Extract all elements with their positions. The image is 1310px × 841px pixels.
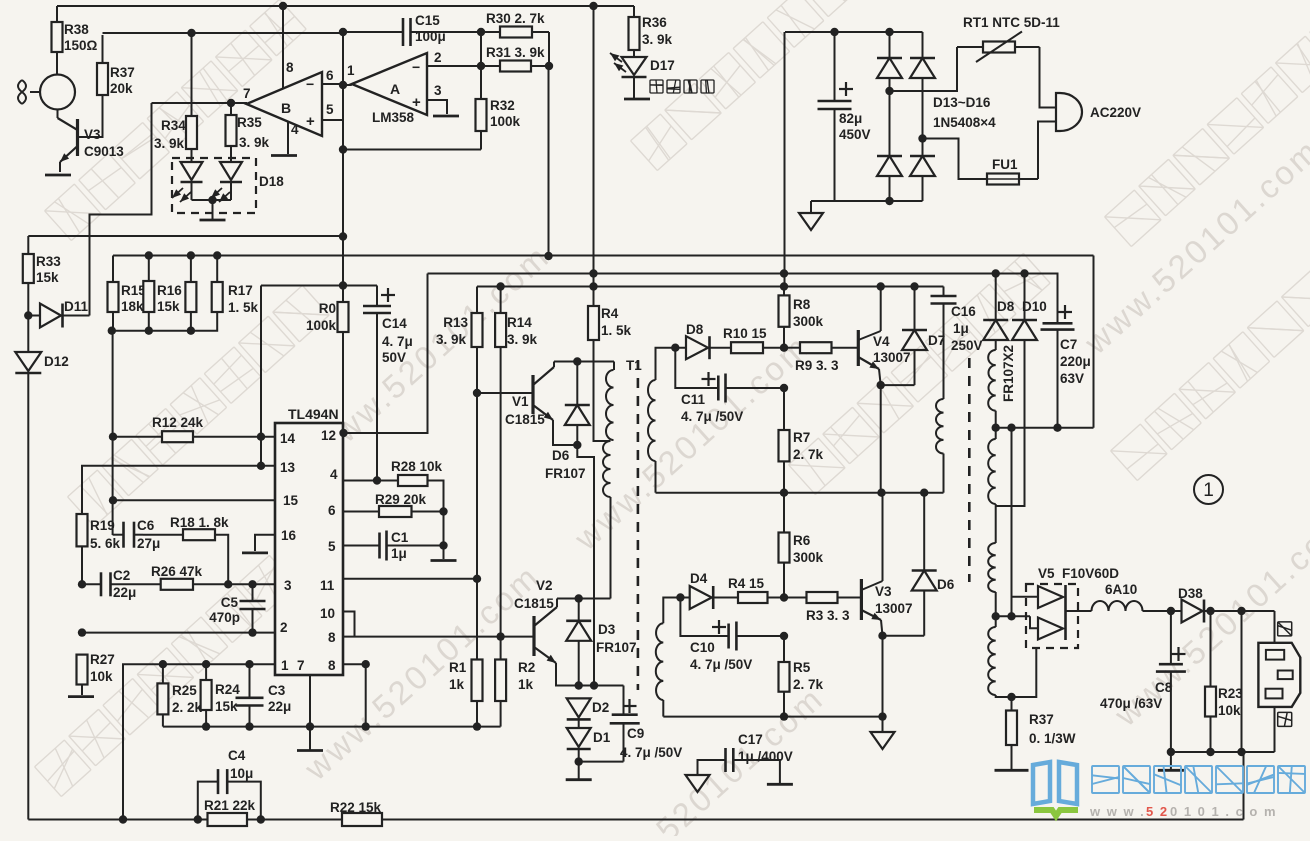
- diode D18a: [172, 162, 203, 202]
- svg-text:w w w .: w w w .: [1089, 804, 1145, 819]
- capacitor C6: [113, 522, 143, 548]
- diode D16: [910, 156, 935, 201]
- node: [496, 632, 504, 640]
- node: [339, 145, 347, 153]
- svg-text:450V: 450V: [839, 127, 871, 142]
- resistor R25: [157, 664, 168, 726]
- inductor 6A10: [1092, 601, 1143, 611]
- node: [159, 660, 167, 668]
- svg-text:D3: D3: [598, 622, 616, 637]
- node: [213, 251, 221, 259]
- svg-text:3: 3: [434, 83, 442, 98]
- svg-text:C16: C16: [951, 304, 976, 319]
- node: [544, 252, 552, 260]
- resistor R16b: [185, 256, 196, 331]
- decor watermark: [631, 0, 893, 171]
- node: [145, 327, 153, 335]
- svg-text:3. 9k: 3. 9k: [239, 135, 270, 150]
- svg-text:V4: V4: [873, 334, 890, 349]
- diode D8out: [983, 274, 1008, 351]
- wire rail B: [428, 273, 1057, 275]
- svg-text:5. 6k: 5. 6k: [90, 536, 121, 551]
- wire: [922, 139, 924, 157]
- resistor R10: [731, 342, 784, 353]
- node: [575, 681, 583, 689]
- resistor R5: [779, 636, 790, 717]
- resistor R30: [481, 27, 549, 38]
- ground: [271, 154, 297, 157]
- node: [24, 311, 32, 319]
- svg-text:15: 15: [283, 493, 299, 508]
- resistor R13: [472, 313, 483, 393]
- pin 8b wire: [343, 664, 366, 726]
- svg-text:16: 16: [281, 528, 297, 543]
- svg-text:R34: R34: [161, 118, 186, 133]
- svg-text:R7: R7: [793, 430, 810, 445]
- wire R bank bottom: [112, 312, 191, 331]
- decor watermark: [1107, 503, 1310, 734]
- capacitor C7: [1041, 274, 1075, 428]
- ground: [767, 783, 793, 786]
- wire 427 row: [996, 427, 1094, 429]
- svg-text:15k: 15k: [36, 270, 59, 285]
- resistor R22: [342, 813, 382, 826]
- node: [575, 594, 583, 602]
- resistor R19: [77, 514, 88, 584]
- wire: [342, 237, 344, 286]
- resistor R15: [108, 256, 119, 313]
- svg-text:R1: R1: [449, 660, 467, 675]
- resistor R16: [143, 256, 154, 313]
- node: [589, 269, 597, 277]
- pin 11 wire: [343, 578, 477, 580]
- svg-text:R29 20k: R29 20k: [375, 492, 427, 507]
- ground: [68, 695, 94, 698]
- node: [575, 757, 583, 765]
- svg-text:1: 1: [281, 658, 289, 673]
- svg-text:470p: 470p: [209, 610, 240, 625]
- wire feedback: [90, 103, 152, 316]
- svg-text:3: 3: [284, 578, 292, 593]
- node: [1007, 693, 1015, 701]
- pin 4 wire: [343, 480, 398, 482]
- svg-text:C17: C17: [738, 732, 763, 747]
- svg-text:4: 4: [330, 467, 338, 482]
- resistor R4: [588, 287, 610, 442]
- wire V5 out: [1066, 610, 1092, 612]
- node: [339, 28, 347, 36]
- decor watermark: [68, 285, 330, 526]
- svg-text:AC220V: AC220V: [1090, 105, 1141, 120]
- xfmr T1 primary upper: [606, 362, 614, 441]
- capacitor C8: [1156, 611, 1186, 752]
- resistor R33: [23, 236, 34, 316]
- svg-text:C1: C1: [391, 530, 409, 545]
- svg-text:D18: D18: [259, 174, 284, 189]
- svg-text:13007: 13007: [875, 601, 913, 616]
- node: [992, 424, 1000, 432]
- pin 2 wire: [427, 65, 481, 67]
- svg-text:8: 8: [328, 658, 336, 673]
- svg-text:1. 5k: 1. 5k: [228, 300, 259, 315]
- label plus: [1058, 311, 1072, 313]
- connector slot: [1278, 671, 1293, 680]
- resistor R26: [161, 579, 193, 590]
- label plus: [381, 294, 395, 296]
- svg-text:R22 15k: R22 15k: [330, 800, 382, 815]
- ground: [566, 762, 592, 780]
- svg-text:R0: R0: [319, 301, 336, 316]
- IC ground stub: [309, 675, 311, 727]
- label dianyuan zhishi: [650, 80, 663, 93]
- wire: [342, 32, 344, 237]
- wire: [577, 445, 594, 686]
- wire R37 top: [103, 32, 344, 34]
- node: [245, 722, 253, 730]
- svg-text:R32: R32: [490, 98, 515, 113]
- node: [573, 357, 581, 365]
- xfmr T1 sec 1: [648, 348, 686, 493]
- svg-text:1. 5k: 1. 5k: [601, 323, 632, 338]
- svg-text:+: +: [306, 113, 315, 130]
- ground: [242, 552, 268, 555]
- svg-text:R35: R35: [237, 115, 262, 130]
- wire: [476, 393, 478, 660]
- svg-text:R13: R13: [443, 315, 468, 330]
- node: [339, 81, 347, 89]
- wire: [57, 110, 59, 119]
- capacitor C14: [363, 286, 391, 481]
- node: [780, 632, 788, 640]
- svg-text:8: 8: [286, 60, 294, 75]
- capacitor C1: [380, 531, 444, 561]
- resistor R32: [476, 32, 487, 150]
- node: [992, 269, 1000, 277]
- node: [920, 489, 928, 497]
- wire: [1040, 47, 1057, 108]
- node: [589, 2, 597, 10]
- svg-text:R10 15: R10 15: [723, 326, 767, 341]
- node: [208, 196, 216, 204]
- node: [877, 381, 885, 389]
- svg-text:C9: C9: [627, 726, 644, 741]
- diode D10: [996, 274, 1037, 507]
- node: [477, 62, 485, 70]
- wire V1 base: [477, 392, 533, 394]
- svg-text:1: 1: [347, 63, 355, 78]
- node: [187, 29, 195, 37]
- thermistor RT1: [957, 32, 1040, 63]
- svg-text:C7: C7: [1060, 337, 1077, 352]
- resistor R37: [97, 35, 108, 95]
- node: [1007, 424, 1015, 432]
- label lan blue: [1278, 622, 1292, 636]
- node: [671, 344, 679, 352]
- node: [590, 681, 598, 689]
- node: [362, 660, 370, 668]
- svg-text:7: 7: [297, 658, 305, 673]
- wire: [191, 33, 193, 116]
- decor watermark: [581, 679, 831, 841]
- wire AC in lower: [923, 139, 988, 180]
- svg-text:13007: 13007: [873, 350, 911, 365]
- pin 15 wire: [113, 499, 275, 501]
- box D18: [172, 158, 256, 213]
- wire: [260, 437, 262, 466]
- pin 5 wire: [322, 120, 343, 150]
- node: [877, 282, 885, 290]
- IC U2 TL494N: [275, 423, 343, 675]
- decor watermark: [1077, 131, 1310, 362]
- pin 12 wire: [343, 274, 428, 434]
- svg-text:6: 6: [328, 503, 336, 518]
- svg-text:2: 2: [434, 50, 442, 65]
- svg-text:R38: R38: [64, 22, 89, 37]
- svg-text:FU1: FU1: [992, 157, 1018, 172]
- svg-text:T1: T1: [626, 358, 642, 373]
- wire bridge supply drop: [784, 32, 786, 287]
- diode D14: [910, 32, 935, 139]
- label zong brown: [1278, 712, 1292, 726]
- svg-text:FR107: FR107: [596, 640, 637, 655]
- ground: [431, 559, 457, 562]
- svg-text:R37: R37: [1029, 712, 1054, 727]
- svg-text:5: 5: [326, 102, 334, 117]
- svg-text:V3: V3: [84, 127, 101, 142]
- svg-text:22μ: 22μ: [113, 585, 136, 600]
- svg-text:R5: R5: [793, 660, 811, 675]
- svg-text:470μ /63V: 470μ /63V: [1100, 696, 1162, 711]
- wire R37 base link: [78, 95, 103, 137]
- wire: [1143, 610, 1182, 612]
- svg-text:15k: 15k: [215, 699, 238, 714]
- svg-text:1k: 1k: [518, 677, 534, 692]
- node: [780, 269, 788, 277]
- resistor R12: [162, 431, 193, 442]
- ground: [1158, 752, 1184, 770]
- svg-text:6A10: 6A10: [1105, 582, 1137, 597]
- wire AC in upper: [890, 47, 958, 91]
- node 7 wire: [152, 102, 248, 104]
- logo url www.520101.com: [1089, 804, 1277, 819]
- node: [473, 389, 481, 397]
- wire: [1038, 122, 1056, 180]
- svg-text:7: 7: [243, 86, 251, 101]
- wire: [212, 200, 214, 219]
- svg-text:R12 24k: R12 24k: [152, 415, 204, 430]
- decor watermark: [1111, 239, 1310, 480]
- diode D15: [877, 156, 902, 201]
- svg-text:10: 10: [320, 606, 335, 621]
- svg-text:250V: 250V: [951, 338, 983, 353]
- node: [1167, 607, 1175, 615]
- node: [248, 580, 256, 588]
- op-amp U1B: [247, 72, 323, 136]
- pin 1 wire: [123, 664, 275, 819]
- node: [992, 612, 1000, 620]
- node: [885, 197, 893, 205]
- fuse FU1: [983, 174, 1038, 185]
- ground: [624, 98, 650, 101]
- resistor R14: [495, 287, 506, 660]
- svg-text:100k: 100k: [490, 114, 521, 129]
- decor watermark: [1105, 5, 1310, 246]
- capacitor C16: [931, 287, 957, 400]
- diode D12: [15, 316, 41, 820]
- node: [877, 489, 885, 497]
- svg-text:1μ: 1μ: [953, 321, 969, 336]
- wire V2 emitter: [556, 663, 624, 686]
- svg-text:FR107: FR107: [545, 466, 586, 481]
- node: [780, 344, 788, 352]
- svg-text:5 2: 5 2: [1146, 804, 1169, 819]
- connector output: [1258, 643, 1300, 707]
- svg-text:2. 7k: 2. 7k: [793, 677, 824, 692]
- microphone BM: [40, 75, 75, 110]
- svg-text:R19: R19: [90, 518, 115, 533]
- ground: [200, 219, 226, 222]
- decor watermark: [567, 327, 817, 558]
- transistor V2 C1815: [534, 607, 557, 663]
- svg-text:C10: C10: [690, 640, 715, 655]
- node: [573, 441, 581, 449]
- resistor R7: [779, 388, 790, 493]
- diode D2: [567, 698, 591, 717]
- transistor V3 13007: [861, 579, 882, 620]
- ground: [433, 115, 459, 118]
- svg-text:8: 8: [328, 630, 336, 645]
- svg-text:D38: D38: [1178, 586, 1203, 601]
- svg-text:2. 7k: 2. 7k: [793, 447, 824, 462]
- xfmr out winding C: [988, 616, 1036, 697]
- svg-text:R36: R36: [642, 15, 667, 30]
- decor watermark: [45, 0, 307, 241]
- svg-text:2: 2: [280, 620, 288, 635]
- svg-text:220μ: 220μ: [1060, 354, 1091, 369]
- wire: [880, 385, 882, 493]
- svg-text:82μ: 82μ: [839, 111, 862, 126]
- decor watermark: [789, 253, 1051, 494]
- node: [78, 628, 86, 636]
- wire: [1012, 596, 1039, 598]
- diode D1: [567, 720, 591, 762]
- node: [676, 593, 684, 601]
- wire: [889, 91, 891, 156]
- wire out bottom: [1171, 751, 1275, 753]
- connector slot: [1266, 650, 1284, 660]
- resistor R17: [191, 256, 223, 331]
- svg-text:12: 12: [321, 428, 336, 443]
- node: [473, 575, 481, 583]
- capacitor C3: [236, 664, 264, 726]
- pin 6 wire: [343, 511, 379, 513]
- svg-text:C14: C14: [382, 316, 407, 331]
- svg-text:R14: R14: [507, 315, 532, 330]
- node: [1167, 748, 1175, 756]
- node: [109, 433, 117, 441]
- svg-text:R27: R27: [90, 652, 115, 667]
- svg-text:R6: R6: [793, 533, 811, 548]
- xfmr T1 sec 2: [656, 598, 690, 717]
- resistor R21: [208, 813, 248, 826]
- wire: [1030, 616, 1038, 628]
- ground: [45, 174, 71, 177]
- wire V3 collector: [882, 493, 884, 581]
- svg-text:0 1 0 1 . c o m: 0 1 0 1 . c o m: [1170, 804, 1277, 819]
- node: [224, 580, 232, 588]
- node: [780, 712, 788, 720]
- connector slot: [1266, 689, 1283, 699]
- svg-text:R18 1. 8k: R18 1. 8k: [170, 515, 229, 530]
- svg-text:R2: R2: [518, 660, 535, 675]
- node: [496, 282, 504, 290]
- wire: [548, 32, 550, 66]
- svg-text:R8: R8: [793, 297, 811, 312]
- pin 3 wire: [161, 583, 275, 585]
- wire divider column: [112, 331, 114, 535]
- node: [306, 722, 314, 730]
- svg-text:R25: R25: [172, 683, 197, 698]
- svg-text:V5: V5: [1038, 566, 1055, 581]
- transistor V4 13007: [858, 330, 880, 369]
- svg-text:D10: D10: [1022, 299, 1047, 314]
- resistor R37b: [1006, 697, 1017, 769]
- svg-text:D6: D6: [552, 448, 570, 463]
- svg-text:15k: 15k: [157, 299, 180, 314]
- wire R13R14 top: [476, 287, 478, 314]
- svg-text:3. 9k: 3. 9k: [154, 136, 185, 151]
- wire rail A: [113, 255, 1094, 257]
- svg-text:C1815: C1815: [514, 596, 554, 611]
- xfmr T1 core: [637, 360, 640, 690]
- svg-text:R37: R37: [110, 65, 135, 80]
- pin 5 wire: [343, 545, 380, 547]
- pin 6 wire: [322, 83, 343, 85]
- svg-text:3. 9k: 3. 9k: [507, 332, 538, 347]
- svg-text:+: +: [412, 94, 421, 111]
- svg-text:0. 1/3W: 0. 1/3W: [1029, 731, 1076, 746]
- wire mid rail: [656, 492, 944, 494]
- ground: [686, 775, 710, 792]
- svg-text:2. 2k: 2. 2k: [172, 700, 203, 715]
- wire: [1274, 611, 1276, 643]
- node: [373, 476, 381, 484]
- resistor R28: [398, 475, 444, 559]
- svg-text:D17: D17: [650, 58, 675, 73]
- resistor R36: [629, 6, 640, 50]
- resistor R1: [472, 660, 483, 727]
- wire top supply rail: [57, 5, 634, 7]
- node: [885, 87, 893, 95]
- wire right loop: [1093, 256, 1095, 428]
- svg-text:R28 10k: R28 10k: [391, 459, 443, 474]
- node: [257, 433, 265, 441]
- node: [1206, 607, 1214, 615]
- capacitor C9: [579, 686, 640, 762]
- wire V4 collector: [880, 287, 882, 332]
- node: [1007, 612, 1015, 620]
- resistor R9: [784, 342, 858, 353]
- diode D3: [566, 599, 591, 686]
- capacitor C10: [680, 598, 784, 651]
- led D17: [610, 50, 647, 98]
- rectifier V5 F10V60D: [1038, 585, 1066, 640]
- svg-text:−: −: [412, 59, 420, 75]
- ground: [799, 201, 823, 230]
- label plus: [712, 626, 726, 628]
- node: [589, 282, 597, 290]
- diode D11: [28, 304, 89, 328]
